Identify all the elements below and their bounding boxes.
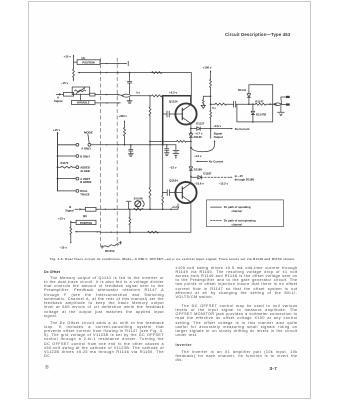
svg-text:−13.2 v: −13.2 v [219, 181, 229, 185]
svg-text:Dc path of operating: Dc path of operating [224, 205, 251, 209]
header: Circuit Description—Type 453 [225, 32, 291, 37]
curved signal path arrow [190, 147, 192, 149]
MODE row: B ONLY [57, 155, 59, 157]
svg-text:No Current: No Current [235, 127, 250, 131]
svg-text:VARIABLE: VARIABLE [77, 101, 90, 105]
svg-text:Output: Output [214, 135, 223, 139]
svg-text:D1136: D1136 [194, 135, 203, 139]
svg-text:POSITION: POSITION [80, 222, 92, 225]
svg-text:+0.6 v: +0.6 v [213, 124, 221, 128]
wire to right contact pad [282, 104, 287, 106]
output switch contact [274, 103, 277, 105]
page number 3-7 [270, 366, 278, 371]
svg-text:+15 v: +15 v [58, 217, 66, 221]
base capacitor of Q1134 [169, 113, 182, 115]
feedback stub arrow [128, 203, 130, 210]
svg-text:(A): (A) [82, 56, 86, 60]
resistor R1170A (between switch sections) [101, 246, 104, 248]
svg-text:+15 v: +15 v [64, 54, 72, 58]
switch section dashed line 1 [100, 58, 102, 246]
svg-text:R1170: R1170 [61, 161, 69, 165]
B input box [85, 207, 96, 211]
dashed wire to -15 [201, 176, 231, 178]
svg-text:D1141: D1141 [238, 88, 247, 92]
ground under attenuator output box [129, 98, 131, 101]
battery to -15V (x=175.9) [175, 145, 177, 150]
wire: attenuator to switch contact C [95, 95, 123, 96]
junction and capacitor to ground (input line) [129, 72, 131, 74]
A position potentiometer [73, 69, 75, 78]
divider verticals [149, 145, 151, 188]
wire: Q1134 emitter down [190, 123, 192, 128]
wire to -15V [73, 78, 75, 81]
capacitor to ground (x=130.8) [130, 145, 132, 149]
MODE row: DUAL TRACE [58, 190, 76, 192]
wire to junction [131, 95, 150, 97]
wire corner down to +6.2V bus [190, 73, 192, 96]
svg-text:Q1134: Q1134 [169, 100, 178, 104]
svg-text:+6.2 v: +6.2 v [169, 90, 178, 94]
diode D1136 [190, 132, 192, 134]
B position potentiometer [70, 227, 72, 235]
input coupling box [62, 93, 64, 95]
right column [176, 266, 298, 367]
svg-text:channel: channel [232, 223, 243, 227]
feedback resistor (horizontal) [150, 140, 177, 142]
MODE row: A VERT B HORIZ [57, 178, 59, 180]
svg-text:Q1184: Q1184 [169, 178, 178, 182]
svg-text:ALGEB: ALGEB [80, 169, 89, 173]
svg-text:D1147B: D1147B [256, 112, 266, 116]
legend box [207, 200, 284, 227]
No Current arrow [197, 160, 208, 162]
svg-text:0 v: 0 v [136, 91, 140, 95]
svg-text:POSITION: POSITION [82, 60, 94, 64]
svg-text:0 v: 0 v [212, 106, 216, 110]
svg-text:B HORIZ: B HORIZ [80, 180, 91, 184]
VARIABLE attenuator box [72, 93, 73, 95]
svg-text:channel: channel [232, 209, 243, 213]
diode D1186 [190, 159, 192, 167]
svg-text:No Current: No Current [209, 160, 224, 164]
caption [50, 257, 300, 261]
ground [280, 106, 282, 112]
output coupling box [90, 93, 95, 96]
resistor on wiper line [152, 72, 163, 74]
switch section dashed line 2 [116, 58, 118, 246]
resistor on emitter line [148, 231, 159, 233]
wire: interstage vertical [190, 141, 192, 159]
svg-text:(B): (B) [83, 214, 87, 218]
gain range resistor [133, 208, 143, 210]
svg-text:R1147: R1147 [255, 99, 264, 103]
svg-text:A ONLY: A ONLY [81, 147, 91, 151]
legend: nonoperating channel [211, 220, 222, 222]
svg-text:+100 v: +100 v [203, 65, 212, 69]
left column [44, 270, 164, 363]
diode D1147B and lower loop [237, 104, 273, 122]
wire: B position wiper to Q1184 emitter [75, 231, 100, 233]
Q1184 emitter down [190, 202, 192, 232]
wire: B signal to Q1184 base network [96, 208, 178, 210]
svg-text:B ONLY: B ONLY [80, 155, 90, 159]
MODE row: A ONLY [58, 144, 76, 146]
svg-text:through D1186: through D1186 [235, 177, 255, 181]
svg-text:Dc path of nonoperating: Dc path of nonoperating [224, 219, 256, 223]
VARIABLE label box [79, 94, 81, 100]
svg-text:−4.3 v: −4.3 v [194, 154, 202, 158]
attenuator output box [122, 94, 131, 97]
svg-text:Signal: Signal [65, 209, 74, 213]
svg-text:Signal: Signal [54, 99, 63, 103]
registered mark [45, 365, 49, 371]
svg-text:+300 v: +300 v [119, 114, 128, 118]
svg-text:MODE: MODE [84, 130, 93, 134]
svg-text:D1186: D1186 [194, 168, 203, 172]
svg-text:B GAIN: B GAIN [134, 197, 143, 200]
wire with resistor to coupling cap [211, 103, 216, 105]
signal output line [210, 104, 212, 110]
gain resistor vertical [129, 209, 131, 217]
wire to upper contact pad [281, 97, 287, 104]
svg-text:+0.2 v: +0.2 v [171, 205, 179, 209]
resistor to +6.2V bus [152, 95, 163, 97]
legend: operating channel [211, 206, 222, 208]
base capacitor of Q1184 [169, 192, 182, 194]
grid resistor and ground [203, 96, 210, 99]
coupling capacitor [234, 101, 236, 107]
wire: POSITION output to contact bar [100, 63, 126, 65]
capacitor to ground (x=166.8) [166, 144, 167, 145]
svg-text:−15 v: −15 v [60, 246, 68, 250]
svg-text:−15 v: −15 v [169, 165, 177, 169]
svg-text:R1170A: R1170A [105, 249, 115, 253]
svg-text:D1187: D1187 [203, 171, 212, 175]
svg-text:−15 v: −15 v [61, 81, 69, 85]
wire: A position wiper to switch [78, 72, 191, 74]
divider resistor (x=150) [149, 96, 151, 107]
svg-text:−10.6 v: −10.6 v [194, 181, 204, 185]
svg-text:D1137: D1137 [196, 122, 205, 126]
svg-text:+15 v: +15 v [53, 128, 61, 132]
svg-text:TRACE: TRACE [80, 193, 89, 197]
A signal input [59, 93, 62, 95]
wire: switch row D [95, 102, 121, 104]
wire [74, 61, 78, 63]
resistor from +100V [210, 79, 212, 87]
